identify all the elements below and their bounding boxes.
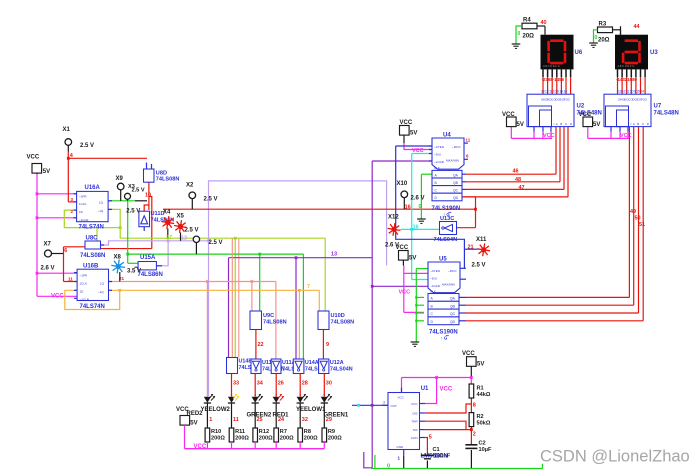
svg-text:VCC: VCC [396,245,409,251]
svg-text:28: 28 [302,381,308,387]
svg-text:11: 11 [68,276,73,281]
svg-text:OUT: OUT [391,404,398,408]
svg-text:U1: U1 [421,386,429,392]
svg-text:R2: R2 [477,414,484,420]
svg-text:22: 22 [258,342,264,348]
svg-text:10µF: 10µF [479,447,492,453]
svg-text:51: 51 [639,222,645,228]
svg-text:49: 49 [630,209,636,215]
svg-text:200Ω: 200Ω [235,436,249,442]
svg-text:U10D: U10D [331,313,345,319]
svg-text:U12A: U12A [330,360,344,366]
svg-text:0: 0 [387,463,390,469]
svg-text:R12: R12 [259,429,269,435]
svg-text:34: 34 [257,381,264,387]
svg-text:10: 10 [145,193,151,199]
svg-text:1CLK: 1CLK [79,202,87,206]
svg-text:24: 24 [278,417,285,423]
svg-text:MAX/MIN: MAX/MIN [446,159,459,163]
svg-text:VCC: VCC [412,148,424,154]
svg-text:CLK: CLK [434,166,440,170]
svg-text:U5: U5 [439,256,447,262]
svg-text:74LS04N: 74LS04N [330,367,353,373]
svg-text:2.5 V: 2.5 V [80,143,94,149]
svg-text:X2: X2 [186,183,194,189]
svg-text:2.5 V: 2.5 V [126,209,140,215]
svg-text:2.5 V: 2.5 V [185,228,199,234]
svg-text:~1PR: ~1PR [79,195,87,199]
svg-text:200Ω: 200Ω [280,436,294,442]
svg-text:QD: QD [453,196,459,200]
svg-text:74LS08N: 74LS08N [263,320,287,326]
svg-text:R8: R8 [304,429,311,435]
svg-text:VCC: VCC [399,290,411,296]
svg-text:U8C: U8C [86,235,99,241]
svg-text:CON: CON [411,436,418,440]
svg-text:X4: X4 [163,210,171,216]
svg-text:3: 3 [383,400,385,404]
svg-text:QA: QA [453,173,459,177]
svg-text:74LS08N: 74LS08N [156,177,180,183]
svg-text:13: 13 [331,252,337,258]
svg-text:R3: R3 [599,21,607,27]
svg-text:5V: 5V [409,256,416,262]
svg-text:74LS04N: 74LS04N [434,237,458,243]
svg-text:5V: 5V [43,169,50,175]
svg-text:OA OB OC OD OE OF OG: OA OB OC OD OE OF OG [541,98,571,102]
svg-text:-2368-1456: -2368-1456 [542,77,565,82]
svg-text:QC: QC [450,312,456,316]
svg-text:0: 0 [595,35,598,41]
svg-text:~CTEN: ~CTEN [434,145,444,149]
svg-text:THR: THR [411,420,418,424]
svg-text:26: 26 [278,381,284,387]
svg-text:200Ω: 200Ω [328,436,342,442]
svg-text:44kΩ: 44kΩ [477,392,491,398]
svg-text:VCC: VCC [194,444,207,450]
svg-text:VCC: VCC [440,387,453,393]
svg-text:U6: U6 [575,50,583,56]
svg-text:1CLK: 1CLK [80,282,88,286]
svg-text:11: 11 [233,417,239,423]
svg-text:2.6 V: 2.6 V [411,196,425,202]
svg-text:U4: U4 [443,132,451,138]
svg-text:QC: QC [453,189,459,193]
svg-text:~1CLR: ~1CLR [79,218,89,222]
svg-text:20Ω: 20Ω [523,34,535,40]
svg-text:QD: QD [450,320,456,324]
svg-text:74LS08N: 74LS08N [331,320,355,326]
svg-text:1Q: 1Q [99,201,104,205]
svg-text:<A B C D: <A B C D [630,122,650,126]
svg-text:46: 46 [513,169,519,175]
svg-text:X1: X1 [63,127,71,133]
svg-text:U7: U7 [654,103,662,109]
svg-text:DIS: DIS [412,412,417,416]
svg-text:11: 11 [466,138,471,143]
svg-text:13 12 11 10 9 15 14: 13 12 11 10 9 15 14 [541,90,567,94]
svg-text:47: 47 [519,185,525,191]
svg-text:CLK: CLK [430,290,436,294]
svg-text:X8: X8 [114,254,122,260]
svg-text:VCC: VCC [543,133,555,139]
svg-text:VCC: VCC [411,402,418,406]
svg-text:YEELOW1: YEELOW1 [296,407,326,413]
svg-text:13 12 11 10 9 15 14: 13 12 11 10 9 15 14 [618,90,644,94]
svg-text:~1CLR: ~1CLR [80,298,90,302]
svg-text:QB: QB [450,304,456,308]
svg-text:200Ω: 200Ω [304,436,318,442]
svg-text:8: 8 [473,402,476,408]
svg-text:VCC: VCC [51,293,64,299]
svg-text:3.5 V: 3.5 V [127,269,141,275]
svg-text:MAX/MIN: MAX/MIN [442,283,455,287]
svg-text:R11: R11 [235,429,245,435]
svg-text:~D/U: ~D/U [430,277,437,281]
svg-text:1: 1 [209,417,212,423]
svg-text:C2: C2 [479,440,486,446]
svg-text:U16B: U16B [83,263,99,269]
svg-text:R7: R7 [280,429,287,435]
svg-text:X9: X9 [116,176,124,182]
svg-text:~LOAD: ~LOAD [430,284,441,288]
svg-text:VCC: VCC [620,133,632,139]
svg-text:48: 48 [515,177,521,183]
svg-text:VCC: VCC [400,120,413,126]
svg-text:VCC: VCC [27,155,40,161]
svg-text:~RCO: ~RCO [448,269,457,273]
svg-text:U2: U2 [577,103,585,109]
svg-text:50kΩ: 50kΩ [477,420,491,426]
svg-text:~D/U: ~D/U [434,153,441,157]
svg-text:200Ω: 200Ω [211,436,225,442]
svg-text:100nF: 100nF [434,453,451,459]
svg-text:~1PR: ~1PR [80,273,88,277]
svg-text:6: 6 [64,248,67,254]
svg-text:<A B C D: <A B C D [553,122,573,126]
svg-text:↑ G: ↑ G [441,336,448,341]
svg-text:25: 25 [257,417,263,423]
svg-text:5: 5 [429,435,432,441]
svg-text:U3: U3 [650,50,658,56]
svg-text:40: 40 [541,20,547,26]
svg-text:200Ω: 200Ω [259,436,273,442]
svg-text:TRI: TRI [413,428,418,432]
svg-text:C1: C1 [433,447,440,453]
svg-text:9: 9 [326,342,329,348]
svg-text:5V: 5V [477,362,484,368]
svg-text:VCC: VCC [398,396,405,400]
svg-text:30: 30 [326,381,332,387]
svg-text:74LS48N: 74LS48N [654,111,679,117]
svg-text:2.5 V: 2.5 V [209,240,223,246]
svg-text:OA OB OC OD OE OF OG: OA OB OC OD OE OF OG [618,98,648,102]
svg-text:X7: X7 [44,241,52,247]
svg-text:7: 7 [307,284,310,290]
svg-text:0: 0 [518,31,521,37]
svg-text:2.5 V: 2.5 V [204,196,218,202]
svg-text:~CTEN: ~CTEN [430,269,440,273]
svg-text:74LS190N: 74LS190N [429,329,458,335]
svg-text:33: 33 [233,381,239,387]
svg-text:A B C D E F G: A B C D E F G [618,64,635,68]
svg-text:R4: R4 [523,18,531,24]
svg-text:X5: X5 [177,214,185,220]
svg-text:12: 12 [181,236,187,242]
svg-text:32: 32 [302,417,308,423]
svg-text:X11: X11 [476,237,487,243]
svg-text:2.6 V: 2.6 V [41,265,55,271]
svg-text:X10: X10 [397,181,408,187]
svg-text:74LS74N: 74LS74N [79,225,104,231]
svg-text:2: 2 [473,431,476,437]
svg-text:5V: 5V [190,420,197,426]
svg-text:1Q: 1Q [100,282,105,286]
svg-text:CSDN @LionelZhao: CSDN @LionelZhao [540,448,690,466]
svg-text:QB: QB [453,181,459,185]
svg-text:16: 16 [405,205,411,211]
svg-text:YEELOW2: YEELOW2 [201,407,231,413]
svg-text:A B C D E F G: A B C D E F G [543,64,560,68]
svg-text:27: 27 [166,235,172,241]
svg-text:2.5 V: 2.5 V [472,262,486,268]
svg-text:20Ω: 20Ω [598,37,610,43]
svg-text:0: 0 [419,204,422,210]
svg-text:VCC: VCC [176,407,189,413]
svg-text:44: 44 [634,24,641,30]
svg-text:5V: 5V [593,122,600,128]
svg-text:~RCO: ~RCO [452,145,461,149]
svg-text:R1: R1 [477,385,484,391]
svg-text:U13C: U13C [440,216,454,222]
svg-text:U9C: U9C [263,313,274,319]
svg-text:21: 21 [468,244,474,250]
svg-text:50: 50 [635,216,641,222]
svg-text:X12: X12 [388,215,399,221]
svg-text:5V: 5V [410,130,417,136]
svg-text:QA: QA [450,297,456,301]
svg-text:-14321680: -14321680 [616,77,638,82]
svg-text:74LS86N: 74LS86N [138,272,163,278]
svg-text:~1Q: ~1Q [98,209,104,213]
svg-text:U14B: U14B [239,359,253,365]
svg-text:2.5 V: 2.5 V [132,188,145,194]
svg-text:U15A: U15A [140,255,156,261]
svg-text:~LOAD: ~LOAD [434,160,445,164]
svg-text:R9: R9 [328,429,335,435]
svg-text:GND: GND [397,445,405,449]
svg-text:16: 16 [413,224,419,230]
svg-text:~1Q: ~1Q [98,290,104,294]
svg-text:U14A: U14A [305,360,319,366]
svg-text:29: 29 [326,417,332,423]
svg-text:U16A: U16A [85,185,101,191]
svg-text:R10: R10 [211,429,221,435]
svg-text:5V: 5V [517,122,524,128]
svg-text:74LS08N: 74LS08N [80,253,105,259]
svg-text:74LS74N: 74LS74N [80,304,105,310]
